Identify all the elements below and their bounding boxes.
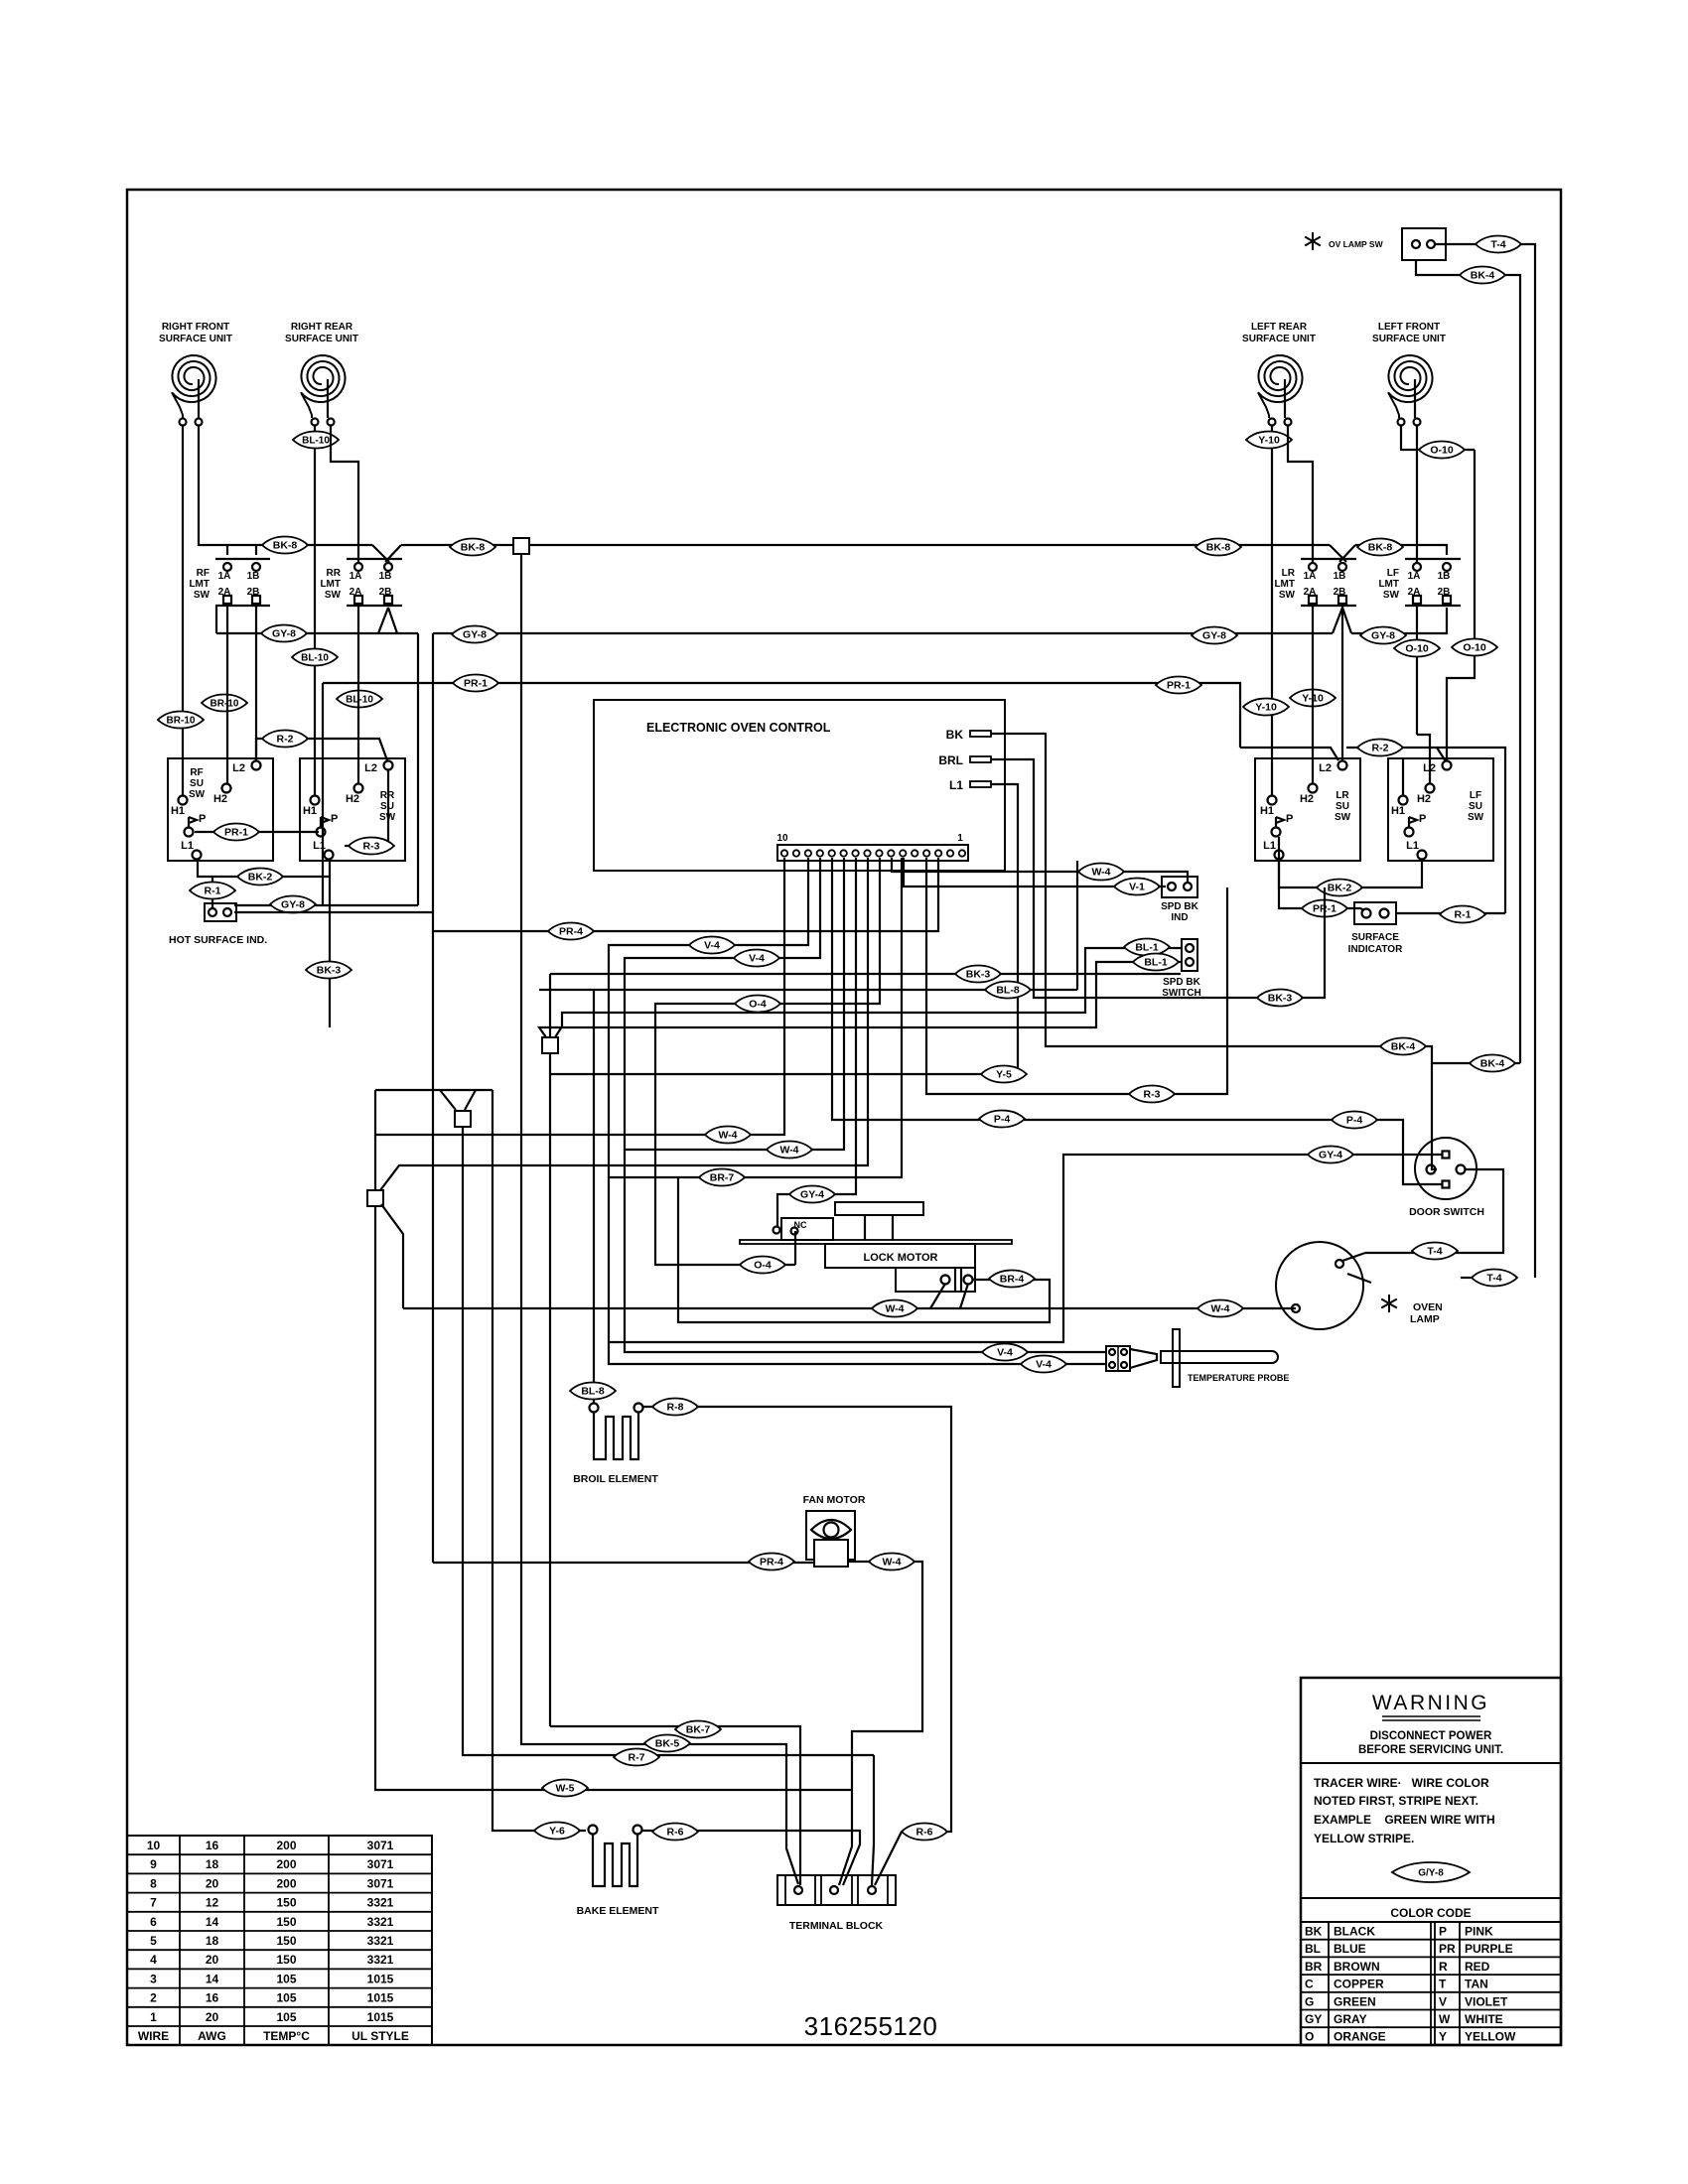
svg-text:GY-8: GY-8 — [463, 629, 487, 641]
oval BR-7 — [699, 1169, 745, 1186]
oval W-4 a — [705, 1127, 751, 1144]
wire BL-8 line — [539, 989, 1077, 991]
svg-text:TERMINAL BLOCK: TERMINAL BLOCK — [789, 1920, 884, 1932]
wire RF rail to GY-8 — [215, 606, 217, 633]
svg-text:L2: L2 — [364, 762, 377, 774]
wire GY-8 LF segment — [1351, 608, 1447, 633]
svg-text:G: G — [1305, 1994, 1314, 2008]
wire R-3 long line — [926, 858, 1227, 1094]
ELECTRONIC OVEN CONTROL box — [594, 700, 1005, 871]
oval W-4 b — [767, 1142, 812, 1159]
svg-text:FAN MOTOR: FAN MOTOR — [803, 1494, 866, 1506]
wire LR 1B to L2 — [1341, 603, 1343, 760]
oval Y-10 c — [1290, 690, 1336, 707]
wire Y-6 line — [492, 1090, 586, 1831]
svg-text:IND: IND — [1171, 912, 1188, 923]
svg-text:SURFACE UNIT: SURFACE UNIT — [1242, 334, 1316, 344]
wire BR-4 from lock motor — [678, 1177, 1050, 1322]
wire V-1 to SPD BK IND — [904, 858, 1166, 887]
svg-text:BL-10: BL-10 — [346, 695, 373, 706]
oval BL-10 b — [292, 649, 338, 666]
terminal block — [777, 1875, 896, 1905]
svg-text:H2: H2 — [1300, 793, 1314, 805]
oval T-4 b — [1472, 1270, 1517, 1287]
wire RR 1B-2B V to GY-8 — [378, 608, 388, 633]
svg-text:OV LAMP SW: OV LAMP SW — [1329, 239, 1384, 249]
wire BK pad to door switch — [991, 734, 1437, 1169]
svg-text:BK-2: BK-2 — [1328, 883, 1352, 894]
junction square mid — [542, 1037, 558, 1053]
wire O-10 down right side to LF L2 — [1447, 450, 1475, 760]
warning divider 2 — [1301, 1897, 1561, 1899]
oval R-2 a — [262, 731, 308, 748]
svg-text:SW: SW — [1468, 812, 1484, 823]
wire GY-4 door switch line — [609, 1155, 1442, 1342]
junction square 2 — [367, 1190, 383, 1206]
svg-text:GY-4: GY-4 — [1319, 1150, 1342, 1161]
svg-text:12: 12 — [206, 1896, 219, 1910]
svg-text:C: C — [1305, 1978, 1314, 1991]
svg-text:SW: SW — [194, 590, 211, 601]
wire W-4 to SPD BK IND — [892, 858, 1188, 882]
svg-text:BK-3: BK-3 — [1268, 993, 1293, 1005]
svg-text:2B: 2B — [247, 587, 260, 598]
oval BK-3 a — [306, 962, 352, 979]
svg-text:105: 105 — [276, 1991, 296, 2005]
wire GY-8 riser to hot surface line — [417, 633, 419, 905]
oval BK-2 b — [1317, 880, 1362, 896]
svg-text:BL-1: BL-1 — [1135, 942, 1158, 954]
oval GY-8 hot — [270, 896, 316, 913]
oval BK-7 — [675, 1721, 721, 1738]
wire R-2 left — [256, 739, 387, 760]
svg-text:SW: SW — [325, 590, 342, 601]
wire lock motor contact diagonals — [930, 1284, 945, 1308]
wire BK-5 line — [521, 554, 798, 1884]
wire RR unit left lead to H1 — [314, 426, 316, 795]
svg-text:P-4: P-4 — [994, 1114, 1011, 1126]
wire RF unit right lead — [199, 426, 256, 545]
svg-text:SW: SW — [189, 789, 206, 800]
svg-text:SW: SW — [1279, 590, 1296, 601]
wire R-1 left vertical — [211, 877, 213, 908]
wire L1 pad to Y-5 line — [550, 784, 1018, 1074]
oval BK-8 b — [450, 539, 495, 556]
wire PR-4 fan line — [433, 1562, 814, 1564]
svg-text:BK-2: BK-2 — [248, 872, 273, 884]
svg-text:Y-6: Y-6 — [549, 1826, 565, 1838]
svg-text:Y-10: Y-10 — [1255, 702, 1277, 714]
svg-text:SU: SU — [1469, 801, 1482, 812]
SURFACE INDICATOR box — [1354, 902, 1396, 924]
svg-text:L2: L2 — [1319, 762, 1332, 774]
svg-text:14: 14 — [206, 1915, 219, 1929]
svg-text:V-4: V-4 — [704, 940, 720, 952]
svg-text:18: 18 — [206, 1934, 219, 1948]
svg-text:RED: RED — [1465, 1960, 1490, 1974]
svg-text:LR: LR — [1282, 568, 1296, 579]
svg-text:PR-4: PR-4 — [559, 926, 583, 938]
oval BK-5 — [644, 1735, 690, 1752]
wire RF 1B to L2 — [255, 603, 257, 760]
svg-text:4: 4 — [150, 1953, 157, 1967]
svg-text:V-4: V-4 — [997, 1347, 1013, 1359]
svg-text:LMT: LMT — [320, 579, 341, 590]
svg-text:PR-1: PR-1 — [1167, 680, 1191, 692]
oval O-4 b — [740, 1257, 785, 1274]
wire R-6 right to terminal block — [875, 1832, 902, 1885]
wire BK-2 left — [198, 860, 330, 877]
svg-text:HOT SURFACE IND.: HOT SURFACE IND. — [169, 934, 267, 946]
svg-text:BR-4: BR-4 — [1000, 1274, 1025, 1286]
wire crossover into LR 1B — [1330, 545, 1346, 562]
temperature probe connector — [1106, 1346, 1130, 1371]
oval GY-4 b — [1308, 1147, 1353, 1163]
wire O-4 line — [655, 858, 880, 1265]
wire BK-2 right — [1279, 860, 1422, 887]
svg-text:1B: 1B — [1438, 571, 1451, 582]
wire V-4 line b — [625, 858, 1106, 1352]
wire W-4 line 1 — [375, 858, 784, 1135]
svg-text:R-1: R-1 — [205, 886, 221, 897]
svg-text:3: 3 — [150, 1972, 157, 1985]
oval O-4 a — [735, 996, 780, 1013]
svg-text:R-3: R-3 — [363, 841, 380, 853]
svg-text:3071: 3071 — [367, 1876, 394, 1890]
svg-text:SU: SU — [190, 778, 204, 789]
svg-text:PR-1: PR-1 — [224, 827, 248, 839]
svg-text:GY-8: GY-8 — [272, 628, 296, 640]
svg-text:1A: 1A — [1408, 571, 1421, 582]
svg-text:LF: LF — [1387, 568, 1399, 579]
svg-text:R-2: R-2 — [1372, 743, 1389, 754]
oval PR-1 d — [1302, 900, 1347, 917]
svg-text:PR: PR — [1439, 1942, 1456, 1956]
svg-text:2: 2 — [150, 1991, 157, 2005]
svg-text:RF: RF — [197, 568, 210, 579]
svg-text:P: P — [1439, 1925, 1447, 1939]
wire R-7 to terminal block — [872, 1755, 874, 1885]
wire W-4 lamp line — [403, 1307, 1296, 1309]
svg-text:YELLOW: YELLOW — [1465, 2030, 1516, 2044]
svg-text:3321: 3321 — [367, 1896, 394, 1910]
oval BL-1 b — [1133, 954, 1179, 971]
wire R-3 small RR — [387, 770, 389, 846]
oval GY-8 d — [1360, 627, 1406, 644]
svg-text:16: 16 — [206, 1839, 219, 1852]
svg-text:PR-1: PR-1 — [464, 678, 488, 690]
svg-text:SPD BK: SPD BK — [1161, 901, 1199, 912]
wire BK-4 link — [1432, 1062, 1520, 1064]
svg-text:R: R — [1439, 1960, 1448, 1974]
svg-text:TAN: TAN — [1465, 1978, 1488, 1991]
oval W-5 — [542, 1780, 588, 1797]
svg-text:L1: L1 — [1406, 840, 1419, 852]
svg-text:O-10: O-10 — [1430, 445, 1454, 457]
svg-text:150: 150 — [276, 1934, 296, 1948]
wire PR-1 LR P to surface indicator — [1279, 837, 1364, 910]
svg-text:LEFT REAR: LEFT REAR — [1251, 322, 1308, 333]
svg-text:BROWN: BROWN — [1334, 1960, 1380, 1974]
svg-text:RR: RR — [327, 568, 342, 579]
wire BK-4 from OV LAMP SW — [1416, 260, 1460, 275]
oval V-4 b — [734, 950, 779, 967]
svg-text:L1: L1 — [1263, 840, 1276, 852]
svg-text:L2: L2 — [232, 762, 245, 774]
svg-text:W-4: W-4 — [1210, 1303, 1229, 1315]
svg-text:105: 105 — [276, 2010, 296, 2024]
limit switch LF LMT SW — [1405, 558, 1461, 560]
svg-text:H1: H1 — [1391, 805, 1405, 817]
oval R-3 b — [1129, 1086, 1175, 1103]
svg-text:BL-8: BL-8 — [581, 1386, 604, 1398]
svg-text:Y-5: Y-5 — [996, 1069, 1012, 1081]
junction square 1 — [455, 1111, 471, 1127]
wire R-6 left line — [642, 1831, 860, 1885]
oval BK-8 d — [1357, 539, 1403, 556]
wire P-4 line to door switch — [832, 858, 1442, 1184]
svg-text:SW: SW — [1335, 812, 1351, 823]
lock motor bar — [740, 1240, 1012, 1244]
wire V-4 line a — [609, 858, 1106, 1364]
wire W-5 down to terminal block — [839, 1790, 852, 1885]
svg-text:2A: 2A — [218, 587, 231, 598]
svg-text:3071: 3071 — [367, 1839, 394, 1852]
oval W-4 fan — [869, 1554, 914, 1570]
svg-text:O: O — [1305, 2030, 1314, 2044]
wire R-2 right segment A — [1240, 748, 1338, 760]
svg-text:SW: SW — [1383, 590, 1400, 601]
OV LAMP SW box — [1402, 228, 1446, 260]
svg-text:Y: Y — [1439, 2030, 1447, 2044]
svg-text:SURFACE UNIT: SURFACE UNIT — [285, 334, 358, 344]
oval Y-6 — [534, 1823, 580, 1840]
oval BK-2 a — [237, 869, 283, 886]
svg-text:2B: 2B — [1438, 587, 1451, 598]
temperature probe funnel — [1130, 1349, 1157, 1368]
svg-text:10: 10 — [147, 1839, 161, 1852]
svg-text:1A: 1A — [350, 571, 362, 582]
svg-text:BL-10: BL-10 — [302, 436, 330, 447]
EOC terminal strip — [777, 845, 968, 861]
svg-text:20: 20 — [206, 2010, 219, 2024]
oval R-3 a — [349, 838, 394, 855]
wire RF 1A to H2 — [226, 603, 228, 784]
lock motor NC switch — [781, 1218, 833, 1240]
svg-text:BR: BR — [1305, 1960, 1323, 1974]
oval W-4 lamp — [1197, 1300, 1243, 1317]
border frame — [127, 190, 1561, 2045]
svg-text:BK-8: BK-8 — [1206, 542, 1231, 554]
junction square BK-8 — [513, 538, 529, 554]
svg-text:BK-5: BK-5 — [655, 1738, 680, 1750]
limit switch LR LMT SW — [1301, 558, 1356, 560]
svg-text:150: 150 — [276, 1896, 296, 1910]
warning divider 1 — [1301, 1762, 1561, 1764]
svg-text:O-10: O-10 — [1405, 643, 1429, 655]
svg-text:SURFACE UNIT: SURFACE UNIT — [159, 334, 232, 344]
oval R-8 — [652, 1399, 698, 1416]
wire PR-1 RF P to RR P — [195, 831, 319, 833]
svg-text:W-5: W-5 — [555, 1783, 574, 1795]
svg-text:INDICATOR: INDICATOR — [1348, 944, 1403, 955]
svg-text:BK-3: BK-3 — [317, 965, 342, 977]
oval GY-4 a — [789, 1186, 835, 1203]
svg-text:SURFACE UNIT: SURFACE UNIT — [1372, 334, 1446, 344]
svg-text:LMT: LMT — [189, 579, 210, 590]
svg-text:105: 105 — [276, 1972, 296, 1985]
svg-text:H1: H1 — [303, 805, 317, 817]
wire BK-3 mid line — [549, 974, 551, 1037]
oval BR-10 second — [202, 695, 247, 712]
wire BL-1 bottom — [539, 962, 1182, 1037]
svg-text:VIOLET: VIOLET — [1465, 1994, 1508, 2008]
oven lamp — [1276, 1242, 1363, 1329]
oval P-4 b — [1332, 1112, 1377, 1129]
svg-text:1B: 1B — [379, 571, 392, 582]
svg-text:R-7: R-7 — [629, 1752, 645, 1764]
wire GY-8 left segment — [216, 632, 418, 634]
oval R-2 b — [1357, 740, 1403, 756]
svg-text:H2: H2 — [213, 793, 227, 805]
wire RR L1 down through BK-3 — [329, 860, 331, 1027]
svg-text:7: 7 — [150, 1896, 157, 1910]
svg-text:200: 200 — [276, 1839, 296, 1852]
svg-text:O-4: O-4 — [754, 1260, 772, 1272]
svg-text:1: 1 — [957, 833, 963, 844]
oval GY-8 c — [1192, 627, 1237, 644]
svg-text:BK-7: BK-7 — [686, 1724, 711, 1736]
stub LF H1 — [1402, 758, 1404, 795]
svg-text:ELECTRONIC OVEN CONTROL: ELECTRONIC OVEN CONTROL — [646, 721, 831, 735]
oval R-7 — [614, 1749, 659, 1766]
svg-text:L1: L1 — [181, 840, 194, 852]
oval V-1 — [1114, 879, 1160, 895]
svg-text:COPPER: COPPER — [1334, 1978, 1384, 1991]
svg-text:18: 18 — [206, 1857, 219, 1871]
svg-text:3071: 3071 — [367, 1857, 394, 1871]
door switch — [1415, 1138, 1477, 1199]
oval PR-1 c — [213, 824, 259, 841]
EOC pad BRL — [970, 756, 991, 762]
lock motor body — [825, 1244, 975, 1268]
oval R-1 a — [190, 883, 235, 899]
svg-text:3321: 3321 — [367, 1953, 394, 1967]
svg-text:BL-10: BL-10 — [301, 653, 329, 664]
wire T-4 lamp to door switch — [1365, 1169, 1503, 1253]
wire junction2 diag to lamp line — [381, 1204, 403, 1308]
svg-text:GY-8: GY-8 — [281, 899, 305, 911]
svg-text:RIGHT FRONT: RIGHT FRONT — [162, 322, 229, 333]
EOC pad BK — [970, 731, 991, 737]
oval R-6 b — [902, 1824, 947, 1841]
oval O-10 c — [1452, 639, 1497, 656]
svg-text:BLACK: BLACK — [1334, 1925, 1375, 1939]
wire BRL pad to BK-3 line — [991, 759, 1325, 998]
lock motor cap — [835, 1202, 923, 1215]
wire R-2 right segment B — [1346, 748, 1505, 913]
svg-text:20: 20 — [206, 1953, 219, 1967]
svg-text:P: P — [1286, 813, 1293, 825]
wire W-4 fan line — [848, 1562, 922, 1790]
oval BL-10 c — [337, 691, 382, 708]
svg-text:16: 16 — [206, 1991, 219, 2005]
svg-text:1015: 1015 — [367, 2010, 394, 2024]
svg-text:G/Y-8: G/Y-8 — [1418, 1868, 1444, 1879]
wire junction mid down to BK-7 — [549, 1053, 551, 1726]
fan motor inner box — [814, 1540, 848, 1567]
oval BR-4 — [989, 1271, 1035, 1288]
oval PR-1 a — [453, 675, 498, 692]
svg-text:GY-8: GY-8 — [1371, 630, 1395, 642]
wire broil riser — [593, 990, 595, 1404]
wire gauge table — [127, 1836, 432, 2045]
oval BK-8 c — [1196, 539, 1241, 556]
svg-text:1A: 1A — [1304, 571, 1317, 582]
switch box RF SU SW — [168, 758, 273, 861]
svg-text:DISCONNECT POWER: DISCONNECT POWER — [1370, 1730, 1492, 1742]
svg-text:TEMPERATURE PROBE: TEMPERATURE PROBE — [1188, 1373, 1289, 1383]
wire LR 1A to H2 — [1312, 603, 1314, 784]
wire BR-7 line — [609, 858, 902, 1177]
svg-text:6: 6 — [150, 1915, 157, 1929]
lock motor contact block — [896, 1268, 975, 1292]
svg-text:1: 1 — [150, 2010, 157, 2024]
svg-text:200: 200 — [276, 1857, 296, 1871]
svg-text:BK-4: BK-4 — [1480, 1058, 1505, 1070]
svg-text:BAKE ELEMENT: BAKE ELEMENT — [577, 1905, 659, 1917]
svg-text:R-6: R-6 — [667, 1827, 684, 1839]
svg-text:PURPLE: PURPLE — [1465, 1942, 1513, 1956]
bake element — [589, 1826, 598, 1835]
svg-text:TRACER WIRE· WIRE COLOR: TRACER WIRE· WIRE COLOR — [1314, 1776, 1489, 1790]
wire RF unit left lead to H1 — [182, 426, 184, 795]
junction line 1098 — [375, 1089, 492, 1091]
svg-text:GREEN: GREEN — [1334, 1994, 1376, 2008]
wire R-8 from broil element — [643, 1407, 951, 1832]
temperature probe body — [1161, 1351, 1278, 1363]
svg-text:BK: BK — [946, 728, 964, 742]
svg-text:BK-4: BK-4 — [1391, 1041, 1416, 1053]
wire GY-4 lock motor — [777, 858, 856, 1226]
svg-text:AWG: AWG — [198, 2029, 226, 2043]
wire LR unit right lead jog — [1288, 426, 1313, 562]
svg-text:BR-10: BR-10 — [211, 699, 239, 710]
svg-text:SURFACE: SURFACE — [1351, 932, 1399, 943]
temperature probe flange — [1173, 1329, 1180, 1387]
wire LR 2B V to GY-8 — [1333, 608, 1342, 633]
svg-text:PINK: PINK — [1465, 1925, 1493, 1939]
svg-text:COLOR CODE: COLOR CODE — [1390, 1906, 1471, 1920]
svg-text:150: 150 — [276, 1953, 296, 1967]
wire crossover into RR 1B — [372, 545, 389, 562]
svg-text:WHITE: WHITE — [1465, 2012, 1503, 2026]
svg-text:R-2: R-2 — [277, 734, 294, 746]
svg-text:R-3: R-3 — [1144, 1089, 1161, 1101]
svg-text:W-4: W-4 — [882, 1557, 901, 1569]
svg-text:SPD BK: SPD BK — [1163, 977, 1201, 988]
oval PR-1 b — [1156, 677, 1201, 694]
oval Y-5 — [981, 1066, 1027, 1083]
wire junction1 down to R-7 — [463, 1127, 874, 1755]
wire BK-8 segment at LF — [1355, 545, 1447, 555]
svg-text:SU: SU — [1336, 801, 1349, 812]
svg-text:OVEN: OVEN — [1413, 1301, 1443, 1313]
EOC pad L1 — [970, 781, 991, 787]
svg-text:LMT: LMT — [1378, 579, 1399, 590]
svg-text:Y-10: Y-10 — [1258, 435, 1280, 447]
svg-text:L1: L1 — [949, 778, 963, 792]
